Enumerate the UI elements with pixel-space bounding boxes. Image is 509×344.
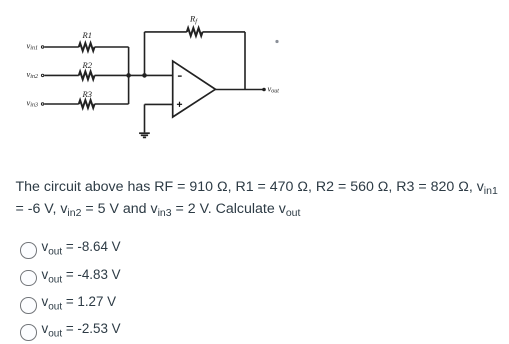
wire R2 to op-amp inverting input	[95, 74, 173, 76]
resistor R3	[79, 100, 95, 108]
wire ground vertical	[144, 104, 146, 132]
svg-text:vin2: vin2	[27, 69, 38, 80]
op-amp plus sign	[177, 102, 182, 107]
wire feedback top right segment	[203, 31, 246, 33]
svg-text:R1: R1	[82, 30, 92, 40]
node vin1 terminal	[41, 46, 43, 48]
stray dot	[275, 40, 278, 43]
wire vin1 to R1	[44, 46, 79, 48]
ground	[139, 133, 150, 137]
junction dot at summing node	[126, 73, 131, 78]
wire R3 to bus	[95, 103, 129, 105]
svg-text:vin1: vin1	[27, 41, 38, 52]
wire feedback right vertical	[244, 32, 246, 90]
svg-text:vout: vout	[268, 84, 280, 95]
resistor Rf	[187, 28, 203, 36]
node vout terminal dot	[262, 88, 266, 92]
wire R1 to bus	[95, 46, 129, 48]
wire feedback left vertical	[144, 32, 146, 76]
wire vin2 to R2	[44, 74, 79, 76]
node vin2 terminal	[41, 74, 43, 76]
resistor R2	[79, 72, 95, 80]
wire summing bus vertical	[128, 47, 130, 104]
op-amp U1	[173, 61, 216, 117]
wire vin3 to R3	[44, 103, 79, 105]
wire noninverting input	[145, 103, 173, 105]
svg-text:vin3: vin3	[27, 98, 38, 109]
node vin3 terminal	[41, 103, 43, 105]
resistor R1	[79, 43, 95, 51]
wire op-amp output	[215, 89, 264, 91]
svg-text:Rf: Rf	[189, 14, 198, 26]
op-amp minus sign	[178, 75, 182, 77]
svg-text:R3: R3	[82, 89, 92, 99]
wire feedback top left segment	[145, 31, 187, 33]
svg-text:R2: R2	[82, 60, 93, 70]
junction dot feedback tap	[142, 73, 147, 78]
